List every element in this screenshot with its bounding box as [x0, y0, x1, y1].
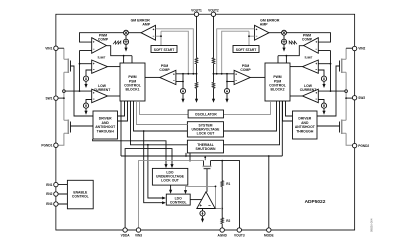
svg-text:EN3: EN3 [46, 202, 52, 206]
svg-text:COMP: COMP [240, 68, 251, 72]
svg-text:ILIMIT: ILIMIT [305, 56, 313, 60]
svg-text:LOCK OUT: LOCK OUT [197, 132, 216, 136]
svg-text:ENABLE: ENABLE [73, 190, 88, 194]
svg-text:R2: R2 [226, 219, 230, 223]
svg-text:MODE: MODE [264, 234, 274, 238]
svg-text:SOFT START: SOFT START [236, 48, 256, 52]
svg-text:CONTROL: CONTROL [72, 195, 89, 199]
svg-text:CONTROL: CONTROL [170, 201, 187, 205]
svg-text:CURRENT: CURRENT [300, 88, 318, 92]
svg-text:BLOCK1: BLOCK1 [126, 88, 140, 92]
svg-text:R1: R1 [226, 182, 230, 186]
svg-text:VOUT1: VOUT1 [191, 9, 202, 13]
svg-text:VOUT3: VOUT3 [234, 234, 245, 238]
svg-text:AMP: AMP [260, 23, 268, 27]
svg-text:COMP: COMP [159, 68, 170, 72]
svg-text:SW1: SW1 [45, 96, 52, 100]
svg-text:VIN3: VIN3 [135, 234, 142, 238]
svg-text:THROUGH: THROUGH [296, 129, 314, 133]
svg-text:PGND2: PGND2 [358, 144, 369, 148]
svg-text:VDDA: VDDA [121, 234, 131, 238]
svg-text:OSCILLATOR: OSCILLATOR [195, 112, 217, 116]
svg-text:09826-004: 09826-004 [370, 218, 374, 232]
svg-text:VOUT2: VOUT2 [208, 9, 219, 13]
svg-text:COMP: COMP [98, 38, 109, 42]
svg-text:AGND: AGND [218, 234, 228, 238]
svg-text:VIN2: VIN2 [358, 47, 365, 51]
svg-text:SHUTDOWN: SHUTDOWN [196, 147, 217, 151]
svg-text:ILIMIT: ILIMIT [98, 56, 106, 60]
svg-text:VIN1: VIN1 [45, 46, 52, 50]
svg-text:THROUGH: THROUGH [97, 129, 115, 133]
svg-text:COMP: COMP [302, 38, 313, 42]
svg-text:EN1: EN1 [46, 183, 52, 187]
svg-text:SW2: SW2 [358, 96, 365, 100]
svg-text:AMP: AMP [142, 23, 150, 27]
svg-text:SOFT START: SOFT START [154, 48, 174, 52]
svg-text:EN2: EN2 [46, 192, 52, 196]
svg-text:CURRENT: CURRENT [94, 88, 112, 92]
svg-text:BLOCK2: BLOCK2 [271, 88, 285, 92]
svg-text:PGND1: PGND1 [41, 143, 52, 147]
svg-text:LOCK OUT: LOCK OUT [161, 179, 180, 183]
svg-text:ADP5022: ADP5022 [305, 199, 326, 205]
